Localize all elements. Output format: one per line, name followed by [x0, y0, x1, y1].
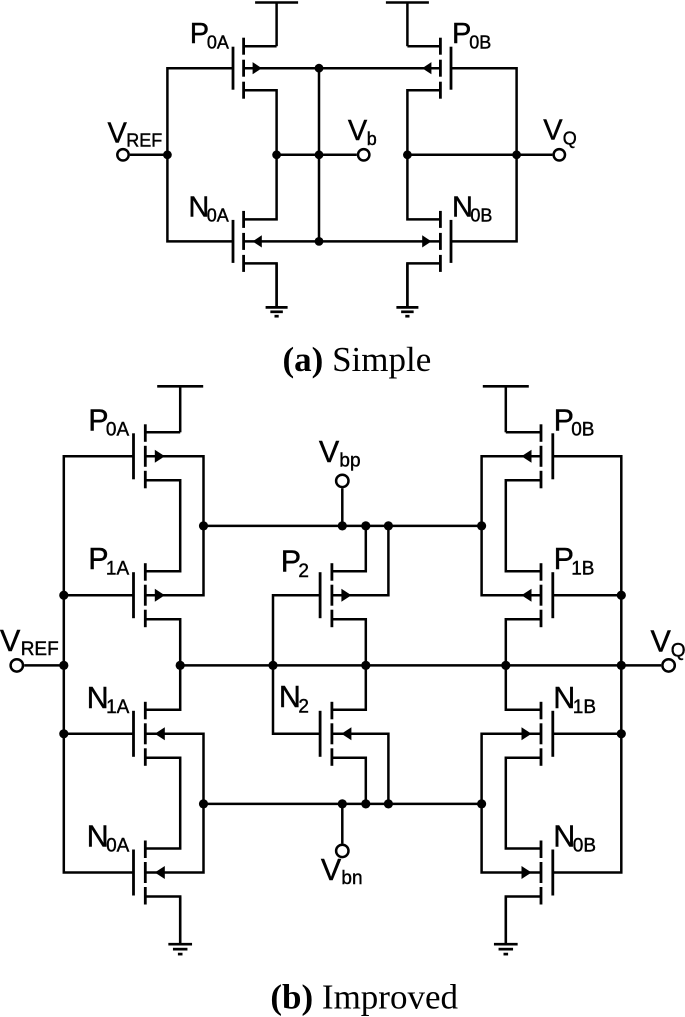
svg-text:V: V [321, 853, 342, 887]
wire N1A source to N0A drain (b) [145, 758, 180, 849]
junction B NMOS bulk tap (b) [477, 799, 486, 808]
VDD supply left (a) [255, 3, 298, 47]
svg-text:V: V [651, 624, 672, 658]
transistor P0B (b) [522, 403, 595, 488]
junction middle drains tap (b) [361, 661, 370, 670]
wire P0B source to VDD (a) [407, 45, 440, 48]
wire left gate net (a) [167, 68, 232, 241]
junction N2 source tap (b) [361, 799, 370, 808]
wire P2 drain to rail (b) [332, 619, 366, 665]
svg-text:b: b [367, 129, 377, 149]
wire V_bn rail (b) [204, 803, 482, 806]
caption (a) Simple [283, 340, 432, 379]
junction drain node A side (a) [272, 150, 281, 159]
svg-text:2: 2 [298, 696, 309, 717]
svg-text:V: V [348, 115, 368, 147]
svg-text:0A: 0A [207, 33, 229, 53]
svg-text:1A: 1A [106, 558, 130, 579]
wire V_bn lead (b) [341, 804, 344, 844]
svg-text:bn: bn [341, 868, 362, 889]
transistor N1B (b) [522, 681, 597, 766]
wire P0A drain to P1A source (b) [145, 480, 180, 571]
transistor P2 (b) [281, 545, 352, 628]
wire N0A source to ground (b) [145, 897, 180, 943]
svg-text:1A: 1A [106, 697, 130, 718]
junction V_Q gate tap (a) [512, 150, 521, 159]
junction middle vertical bottom (a) [315, 237, 324, 246]
wire P0B/P1B bulk link (b) [482, 456, 541, 595]
wire V_bp lead (b) [341, 488, 344, 526]
wire P0A drain to N0A drain (a) [244, 90, 277, 219]
wire right gate net vertical (b) [554, 456, 622, 872]
node V_REF (b) [0, 624, 59, 672]
ground right (a) [396, 263, 418, 316]
wire N1A gate branch (b) [64, 733, 133, 736]
junction V_REF node (a) [163, 150, 172, 159]
wire P0B drain to P1B source (b) [506, 480, 541, 571]
wire N0B source to ground (a) [407, 263, 440, 306]
VDD supply right (b) [483, 386, 529, 432]
junction V_bn tap (b) [338, 799, 347, 808]
node V_Q (b) [651, 624, 685, 671]
svg-text:2: 2 [298, 561, 309, 582]
svg-text:bp: bp [339, 451, 360, 472]
svg-text:0B: 0B [470, 206, 492, 226]
node V_bn (b) [321, 845, 363, 889]
svg-text:V: V [0, 624, 21, 658]
svg-text:1B: 1B [573, 697, 596, 718]
wire P0A source to VDD (a) [244, 45, 277, 48]
svg-text:0B: 0B [469, 33, 491, 53]
caption (b) Improved [270, 978, 458, 1017]
svg-text:V: V [543, 115, 563, 147]
svg-text:0A: 0A [106, 420, 130, 441]
wire P0B source to VDD (b) [506, 431, 541, 434]
wire PMOS bulk rail (a) [244, 67, 441, 70]
wire V_Q line (a) [407, 154, 552, 157]
svg-text:Q: Q [563, 128, 577, 148]
junction V_REF tap (b) [59, 661, 68, 670]
transistor P1B (b) [522, 542, 595, 627]
wire N2 bulk to rail (b) [332, 734, 389, 804]
node V_bp (b) [319, 435, 361, 487]
junction A NMOS bulk tap (b) [199, 799, 208, 808]
junction V_b tap (a) [315, 150, 324, 159]
ground left (b) [168, 897, 192, 955]
wire left gate net vertical (b) [64, 456, 133, 872]
junction B PMOS bulk tap (b) [477, 521, 486, 530]
junction P1B gate tap (b) [617, 591, 626, 600]
VDD supply right (a) [386, 3, 429, 47]
wire middle rail (b) [180, 664, 621, 667]
wire P1A gate branch (b) [64, 594, 133, 597]
wire P0A source to VDD (b) [145, 431, 180, 434]
wire V_Q lead (b) [621, 664, 661, 667]
wire P2 bulk to rail (b) [332, 526, 389, 595]
junction V_Q tap (b) [617, 661, 626, 670]
svg-text:0A: 0A [106, 836, 130, 857]
svg-text:0A: 0A [207, 206, 229, 226]
junction N1B gate tap (b) [617, 729, 626, 738]
svg-text:REF: REF [21, 639, 59, 660]
wire P1A drain to N1A drain (b) [145, 619, 180, 710]
svg-text:(a) Simple: (a) Simple [283, 340, 432, 379]
junction V_bp tap (b) [338, 521, 347, 530]
svg-text:Q: Q [671, 640, 685, 661]
junction P2 bulk tap (b) [384, 521, 393, 530]
junction A PMOS bulk tap (b) [199, 521, 208, 530]
junction P1A gate tap (b) [59, 591, 68, 600]
node V_Q (a) [543, 115, 576, 161]
junction P2/N2 gate tap (b) [268, 661, 277, 670]
transistor N2 (b) [279, 680, 352, 766]
wire V_REF to gates junction (a) [130, 154, 168, 157]
wire N1B gate branch (b) [554, 733, 622, 736]
svg-text:REF: REF [126, 131, 162, 151]
wire NMOS bulk rail (a) [244, 240, 441, 243]
transistor N0B (b) [522, 820, 597, 905]
junction P2 source tap (b) [361, 521, 370, 530]
wire P1B gate branch (b) [554, 594, 622, 597]
wire N1B source to N0B drain (b) [506, 758, 541, 849]
junction N1A gate tap (b) [59, 729, 68, 738]
wire V_bp rail (b) [204, 525, 482, 528]
node V_b (a) [348, 115, 377, 161]
wire V_b line (a) [277, 154, 357, 157]
transistor P0B (a) [422, 18, 491, 99]
ground right (b) [494, 897, 518, 955]
wire V_REF lead (b) [24, 664, 64, 667]
transistor N0A (a) [188, 191, 261, 272]
junction A cascode output (b) [176, 661, 185, 670]
wire N0A source to ground (a) [244, 263, 277, 306]
junction N2 bulk tap (b) [384, 799, 393, 808]
transistor P0A (b) [88, 403, 165, 488]
wire N0B source to ground (b) [506, 897, 541, 943]
wire P1B drain to N1B drain (b) [506, 619, 541, 710]
svg-text:V: V [108, 118, 128, 150]
wire P0B drain to N0B drain (a) [407, 90, 440, 219]
junction bulk rail / middle vertical top (a) [315, 64, 324, 73]
junction drain node B side (a) [403, 150, 412, 159]
transistor N0A (b) [87, 820, 165, 905]
transistor P1A (b) [88, 542, 165, 627]
transistor N1A (b) [87, 681, 165, 766]
junction B cascode output (b) [501, 661, 510, 670]
wire right gate net (a) [452, 68, 517, 241]
node V_REF (a) [108, 118, 163, 161]
wire N2 drain to rail (b) [332, 665, 366, 709]
svg-text:0B: 0B [571, 420, 594, 441]
wire middle vertical (a) [318, 68, 321, 241]
wire N1A/N0A bulk link (b) [145, 734, 203, 873]
transistor N0B (a) [422, 191, 492, 272]
wire N2 source to rail (b) [332, 758, 366, 804]
svg-text:0B: 0B [573, 836, 596, 857]
VDD supply left (b) [157, 386, 203, 432]
ground left (a) [266, 263, 288, 316]
svg-text:1B: 1B [571, 558, 594, 579]
wire P0A/P1A bulk link (b) [145, 456, 203, 595]
wire P2 source to rail (b) [332, 526, 366, 571]
wire P2/N2 gate net (b) [273, 595, 319, 734]
svg-text:(b) Improved: (b) Improved [270, 978, 458, 1017]
wire N1B/N0B bulk link (b) [482, 734, 541, 873]
svg-text:V: V [319, 435, 340, 469]
transistor P0A (a) [190, 18, 262, 99]
